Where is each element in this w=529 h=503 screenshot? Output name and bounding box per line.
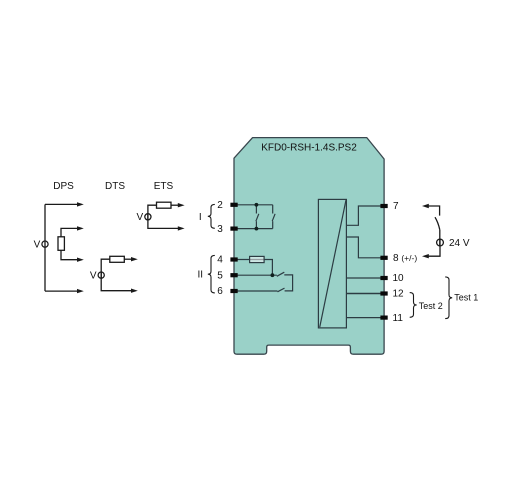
wire terminal 4 [235,260,272,276]
wire switch to source [439,230,441,247]
svg-text:Test 1: Test 1 [454,292,478,302]
brace Test 2 [410,293,417,318]
wire DPS bottom [45,290,79,292]
terminal 3 [230,227,237,231]
brace of group I [208,204,215,228]
wire terminal 3 [235,228,273,230]
arrow DPS inner lower [77,258,84,262]
arrow DPS top [77,202,84,206]
svg-text:DPS: DPS [53,181,74,192]
svg-text:II: II [198,270,204,281]
junction dot node 3 [255,227,259,231]
wire DPS main vertical [44,204,46,291]
arrow DTS top [131,257,138,261]
terminal 12 [380,291,387,295]
resistor DTS [110,256,125,262]
wire terminal 2 [235,204,273,206]
arrow to terminal 7 [422,204,429,208]
voltage source circle 24V [437,239,444,246]
switch S1 blade [435,217,440,230]
wire DTS top [101,259,110,278]
voltage source circle ETS [145,214,151,220]
wire terminal 6 [235,290,278,292]
wire DPS inner lower [61,250,79,259]
terminal 11 [380,316,387,320]
internal wiring right side [346,206,383,318]
terminal 8 [380,256,387,260]
ETS sensor circuit [145,202,180,228]
terminal 4 [230,257,237,261]
wire isolator to terminal 12 [346,293,383,295]
DPS sensor circuit [42,204,79,291]
brace of group II [208,255,215,293]
wire ETS top [148,205,157,220]
svg-text:3: 3 [217,224,223,235]
wire ETS after resistor [171,204,179,206]
wire isolator to terminal 11 [346,317,383,319]
svg-text:DTS: DTS [105,181,125,192]
svg-text:Test 2: Test 2 [419,301,443,311]
terminal 7 [380,204,387,208]
svg-text:KFD0-RSH-1.4S.PS2: KFD0-RSH-1.4S.PS2 [261,143,357,154]
svg-text:ETS: ETS [154,181,174,192]
terminal 6 [230,289,237,293]
svg-text:10: 10 [393,273,405,284]
terminal 10 [380,276,387,280]
arrow ETS bottom [178,226,185,230]
brace Test 1 [445,277,452,319]
wire DTS after resistor [124,258,132,260]
wire ETS bottom [148,213,179,228]
resistor ETS [157,202,172,208]
voltage source circle DTS [98,272,104,278]
arrow ETS top [178,203,185,207]
arrow DPS bottom [77,289,84,293]
wire DPS inner upper [61,228,79,236]
internal wiring group I [235,205,275,229]
contact blade terminal 6 [278,288,285,292]
terminal 2 [230,203,237,207]
arrow to terminal 8 [422,254,429,258]
wire DPS top [45,203,79,205]
contact K1 left branch [255,205,257,214]
svg-text:V: V [90,270,97,281]
wire isolator to terminal 10 [346,277,383,279]
svg-text:24 V: 24 V [449,238,470,249]
svg-text:6: 6 [217,286,223,297]
voltage source circle DPS [42,241,48,247]
contact blade terminal 5 [277,272,285,276]
internal wiring group II [235,256,293,291]
svg-text:8 (+/-): 8 (+/-) [393,253,417,264]
arrow DPS inner upper [77,226,84,230]
isolator U1 [318,199,346,328]
module body KFD0-RSH-1.4S.PS2 [234,138,384,355]
svg-text:7: 7 [393,201,399,212]
isolator diagonal [320,200,346,327]
terminal 5 [230,273,237,277]
24V supply circuit [428,206,444,256]
wire isolator to terminal 7 [346,206,383,225]
svg-text:V: V [34,239,41,250]
junction dot node 5 [271,273,275,277]
DTS sensor circuit [98,256,132,290]
wire source to bottom arrow [428,239,441,257]
svg-text:5: 5 [217,270,223,281]
resistor DPS [58,237,64,251]
svg-text:V: V [137,212,144,223]
wire top to switch [428,206,440,216]
fixed contact bracket [284,275,292,291]
junction dot node 2 [255,203,259,207]
resistor internal [250,256,265,262]
contact K1 right branch [272,205,274,214]
svg-text:I: I [199,212,202,223]
svg-text:12: 12 [393,289,405,300]
svg-text:4: 4 [217,255,223,266]
wire terminal 5 [235,274,277,276]
svg-text:2: 2 [217,200,223,211]
wire isolator to terminal 8 [346,237,383,258]
svg-text:11: 11 [393,313,404,324]
arrow DTS bottom [131,289,138,293]
wire DTS bottom [101,272,132,291]
